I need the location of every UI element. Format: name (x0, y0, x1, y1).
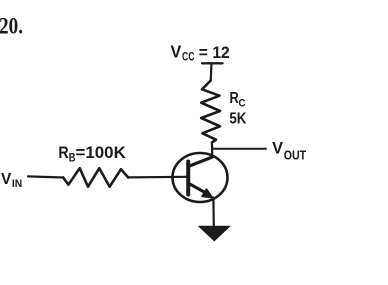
wire Vin to Rb (28, 176, 63, 177)
Vcc terminal bar (202, 62, 223, 64)
svg-text:V: V (171, 42, 182, 62)
label Vout (272, 139, 306, 163)
resistor Rb (63, 168, 128, 187)
svg-text:C: C (239, 97, 246, 109)
label Vcc = 12 (171, 42, 230, 64)
wire emitter to ground (212, 198, 215, 227)
svg-text:20.: 20. (0, 14, 23, 39)
emitter arrowhead (202, 189, 213, 198)
svg-text:R: R (58, 144, 68, 162)
collector lead (189, 157, 213, 166)
svg-text:CC: CC (182, 51, 194, 63)
svg-text:IN: IN (12, 178, 22, 190)
wire Rc to collector node (211, 143, 213, 158)
svg-text:= 12: = 12 (199, 44, 230, 62)
svg-text:V: V (272, 139, 284, 158)
wire Rb to base (128, 176, 187, 179)
svg-text:V: V (1, 171, 12, 188)
wire collector node to Vout (212, 148, 266, 150)
svg-text:R: R (230, 90, 239, 107)
resistor Rc (201, 81, 220, 143)
transistor base bar (186, 162, 190, 195)
ground (199, 226, 230, 241)
svg-text:5K: 5K (229, 111, 247, 128)
label Vin (1, 171, 22, 190)
label Rb=100K (58, 144, 125, 164)
svg-text:=100K: =100K (76, 144, 126, 162)
svg-text:B: B (69, 152, 76, 164)
wire Vcc bar to Rc (210, 63, 213, 80)
label Rc (230, 90, 246, 109)
transistor Q1 body (173, 153, 228, 202)
svg-text:OUT: OUT (284, 148, 307, 162)
emitter lead (189, 184, 206, 194)
